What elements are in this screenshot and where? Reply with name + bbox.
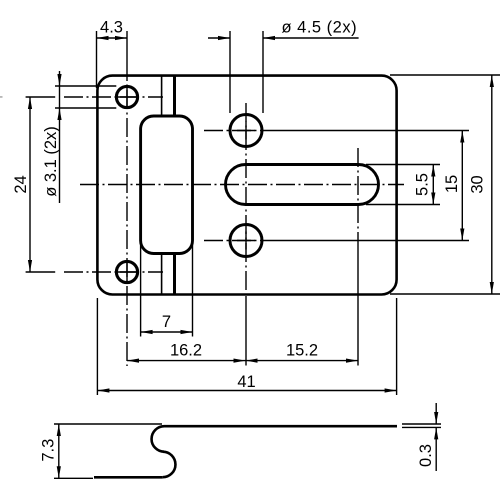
svg-text:4.3: 4.3 (100, 19, 123, 37)
svg-text:30: 30 (469, 175, 487, 193)
svg-text:7: 7 (162, 313, 171, 331)
svg-text:15.2: 15.2 (286, 342, 318, 360)
svg-text:15: 15 (443, 175, 461, 193)
svg-text:41: 41 (237, 373, 255, 391)
svg-text:24: 24 (12, 175, 30, 193)
svg-text:ø 3.1 (2x): ø 3.1 (2x) (42, 126, 60, 197)
svg-text:ø 4.5 (2x): ø 4.5 (2x) (282, 19, 358, 37)
svg-text:16.2: 16.2 (170, 342, 202, 360)
svg-text:5.5: 5.5 (413, 173, 431, 196)
svg-text:0.3: 0.3 (417, 444, 435, 467)
svg-text:7.3: 7.3 (40, 439, 58, 462)
